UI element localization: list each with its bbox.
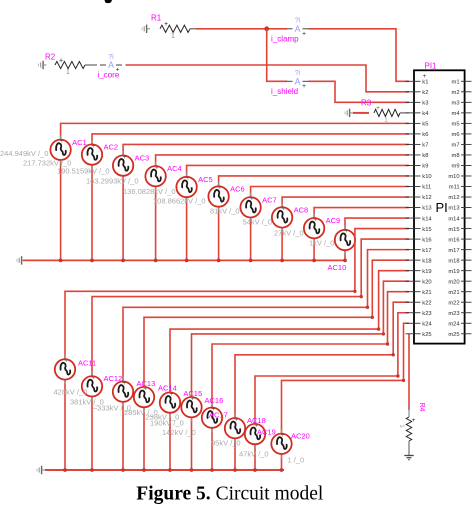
junction AC20 riser corner — [402, 379, 405, 382]
pin k4 — [406, 111, 430, 117]
wire AC14 to pin k18 — [144, 260, 409, 388]
pin m19 — [448, 269, 471, 275]
svg-text:AC15: AC15 — [183, 389, 202, 398]
pin k8 — [406, 153, 429, 159]
svg-text:k4: k4 — [422, 111, 429, 117]
junction AC12 bus — [90, 468, 94, 472]
svg-text:A: A — [108, 60, 114, 70]
pin k23 — [406, 311, 432, 317]
svg-text:m21: m21 — [448, 290, 459, 296]
svg-text:244.949kV /_0: 244.949kV /_0 — [0, 149, 48, 158]
junction AC18 riser corner — [392, 353, 395, 356]
pin m22 — [448, 300, 471, 306]
wire AC19 to ground bus — [254, 443, 256, 470]
wire AC20 to ground bus — [281, 453, 283, 470]
svg-text:m20: m20 — [448, 279, 459, 285]
svg-text:k22: k22 — [422, 300, 431, 306]
junction AC15 riser corner — [377, 327, 380, 330]
resistor R2 lead — [85, 64, 97, 66]
svg-text:k24: k24 — [422, 321, 432, 327]
svg-text:+: + — [122, 380, 126, 387]
AC source AC17 — [202, 403, 222, 432]
pin k6 — [406, 132, 429, 138]
pin k5 — [406, 122, 429, 128]
wire AC13 to ground bus — [122, 401, 124, 470]
wire AC2 to ground bus — [91, 164, 93, 261]
AC source AC12 — [82, 372, 102, 401]
junction AC14 bus — [142, 468, 146, 472]
svg-text:+: + — [155, 164, 159, 171]
svg-text:m13: m13 — [448, 206, 459, 212]
svg-text:+: + — [376, 106, 380, 112]
AC source AC11 — [55, 355, 75, 384]
pin m10 — [448, 174, 471, 180]
svg-text:+: + — [64, 358, 68, 365]
pin k7 — [406, 143, 429, 149]
svg-text:+: + — [164, 21, 168, 28]
svg-text:m18: m18 — [448, 258, 459, 264]
pin m25 — [448, 332, 471, 338]
wire AC10 to pin k14 — [345, 218, 409, 231]
junction AC20 bus — [280, 468, 284, 472]
wire AC5 to pin k9 — [187, 165, 409, 177]
AC source AC20 — [271, 429, 291, 458]
junction AC4 bus — [154, 259, 158, 263]
AC source AC3 — [113, 151, 133, 180]
svg-text:AC17: AC17 — [209, 411, 228, 420]
resistor R4 — [406, 417, 411, 441]
svg-text:163.2993kV /_0: 163.2993kV /_0 — [86, 177, 139, 186]
wire AC7 to ground bus — [250, 217, 252, 261]
ammeter i_core — [98, 54, 123, 80]
svg-text:m22: m22 — [448, 300, 459, 306]
wire AC4 to ground bus — [155, 185, 157, 260]
AC source AC5 — [176, 172, 196, 201]
svg-text:m24: m24 — [448, 321, 460, 327]
svg-text:136.0828kV /_0: 136.0828kV /_0 — [123, 187, 176, 196]
wire junction to i_shield — [267, 29, 287, 82]
svg-text:R2: R2 — [45, 53, 56, 62]
junction AC8 bus — [280, 259, 284, 263]
svg-text:AC19: AC19 — [257, 428, 276, 437]
svg-text:R3: R3 — [361, 99, 372, 108]
pin k21 — [406, 290, 432, 296]
wire AC6 to pin k10 — [219, 176, 409, 187]
wire AC15 to pin k19 — [170, 271, 409, 394]
pin k20 — [406, 279, 432, 285]
pin k18 — [406, 258, 432, 264]
wire AC11 to ground bus — [64, 379, 66, 470]
svg-text:PI: PI — [436, 200, 448, 215]
svg-text:PI1: PI1 — [425, 62, 438, 71]
svg-text:+: + — [59, 57, 63, 64]
resistor R1 — [160, 25, 190, 32]
resistor R3 terminal cap — [345, 109, 353, 117]
svg-text:m1: m1 — [452, 80, 460, 86]
wire R3 cap to resistor — [353, 112, 369, 114]
junction AC16 riser corner — [382, 332, 385, 335]
resistor R1 lead — [190, 28, 197, 30]
svg-text:1 /_0: 1 /_0 — [288, 456, 305, 465]
pin k17 — [406, 248, 432, 254]
svg-text:+: + — [186, 175, 190, 182]
svg-text:+: + — [234, 416, 238, 423]
AC source AC1 — [50, 135, 70, 164]
wire AC13 to pin k17 — [123, 250, 409, 383]
wire AC19 to pin k23 — [255, 313, 409, 425]
svg-text:k17: k17 — [422, 248, 431, 254]
wire AC1 to ground bus — [60, 159, 62, 260]
svg-text:AC10: AC10 — [328, 263, 347, 272]
svg-text:AC5: AC5 — [198, 175, 213, 184]
svg-text:m19: m19 — [448, 269, 459, 275]
wire AC6 to ground bus — [218, 206, 220, 261]
svg-text:m8: m8 — [452, 153, 460, 159]
wire i_clamp to pin k1 — [309, 29, 410, 82]
wire AC12 to ground bus — [91, 396, 93, 471]
svg-text:m23: m23 — [448, 311, 459, 317]
junction AC17 bus — [210, 468, 214, 472]
wire AC20 to pin k24 — [282, 323, 410, 434]
pin m8 — [452, 153, 472, 159]
junction AC12 riser corner — [360, 295, 363, 298]
svg-text:+: + — [218, 185, 222, 192]
svg-text:AC8: AC8 — [294, 205, 309, 214]
pin m24 — [448, 321, 471, 327]
svg-text:+: + — [123, 154, 127, 161]
junction AC6 bus — [217, 259, 221, 263]
pin k16 — [406, 237, 432, 243]
svg-text:k18: k18 — [422, 258, 431, 264]
svg-text:1: 1 — [171, 33, 175, 40]
pin k22 — [406, 300, 432, 306]
pin m20 — [448, 279, 471, 285]
svg-text:m15: m15 — [448, 227, 459, 233]
pin m14 — [448, 216, 471, 222]
wire AC17 to pin k21 — [212, 292, 409, 409]
svg-text:AC11: AC11 — [78, 359, 96, 368]
svg-text:+: + — [250, 196, 254, 203]
junction AC13 riser corner — [366, 306, 369, 309]
svg-text:k5: k5 — [422, 122, 428, 128]
svg-text:+: + — [91, 375, 95, 382]
svg-text:54kV /_0: 54kV /_0 — [243, 218, 273, 227]
svg-text:+: + — [91, 143, 95, 150]
AC source AC4 — [145, 162, 165, 191]
pin k25 — [406, 332, 432, 338]
pin m23 — [448, 311, 471, 317]
svg-text:A: A — [295, 77, 301, 87]
junction AC3 bus — [121, 259, 125, 263]
junction AC15 bus — [168, 468, 172, 472]
resistor R1 terminal cap — [142, 25, 150, 33]
svg-text:R4: R4 — [418, 403, 425, 412]
svg-text:AC18: AC18 — [247, 416, 266, 425]
svg-text:AC4: AC4 — [167, 164, 182, 173]
pin m7 — [452, 143, 472, 149]
svg-text:+: + — [302, 30, 306, 37]
resistor R3 — [374, 109, 400, 116]
AC source AC8 — [272, 203, 292, 232]
svg-text:k23: k23 — [422, 311, 431, 317]
svg-text:AC3: AC3 — [135, 154, 150, 163]
svg-text:i_core: i_core — [98, 71, 120, 80]
svg-text:m11: m11 — [449, 185, 460, 191]
AC source AC18 — [225, 414, 245, 443]
junction AC18 bus — [233, 468, 237, 472]
wire AC9 to ground bus — [313, 237, 315, 260]
pin k24 — [406, 321, 433, 327]
pin k9 — [406, 164, 429, 170]
wire AC16 to ground bus — [191, 416, 193, 470]
svg-text:k12: k12 — [422, 195, 431, 201]
AC source AC9 — [304, 214, 324, 243]
pin k10 — [406, 174, 432, 180]
svg-text:m25: m25 — [448, 332, 459, 338]
svg-text:m10: m10 — [448, 174, 459, 180]
junction clamp/shield — [264, 26, 269, 31]
pin k1 — [406, 80, 429, 86]
svg-text:k3: k3 — [422, 101, 428, 107]
pin k19 — [406, 269, 432, 275]
svg-text:k11: k11 — [422, 185, 431, 191]
junction AC11 riser corner — [353, 290, 356, 293]
svg-text:81kV /_0: 81kV /_0 — [210, 207, 240, 216]
svg-text:95kV /_0: 95kV /_0 — [211, 439, 241, 448]
wire pin k25 to R4 — [408, 334, 410, 410]
wire AC2 to pin k6 — [92, 134, 409, 146]
svg-text:m5: m5 — [452, 122, 460, 128]
svg-text:Figure 5. Circuit model: Figure 5. Circuit model — [136, 484, 324, 505]
svg-text:k25: k25 — [422, 332, 431, 338]
pin k14 — [406, 216, 433, 222]
wire R3 to pin k4 — [400, 112, 409, 114]
pin k2 — [406, 90, 429, 96]
svg-text:m9: m9 — [452, 164, 460, 170]
resistor R2 — [55, 61, 85, 68]
wire AC18 to pin k22 — [235, 302, 409, 419]
svg-text:k7: k7 — [422, 143, 428, 149]
svg-text:+: + — [281, 432, 285, 439]
svg-text:k13: k13 — [422, 206, 431, 212]
svg-text:A: A — [295, 24, 301, 34]
junction AC2 bus — [90, 259, 94, 263]
svg-text:428kV /_0: 428kV /_0 — [54, 388, 88, 397]
svg-text:142kV /_0: 142kV /_0 — [162, 428, 196, 437]
svg-text:k14: k14 — [422, 216, 432, 222]
wire AC4 to pin k8 — [156, 155, 409, 167]
wire AC11 to pin k15 — [65, 229, 409, 361]
svg-text:k16: k16 — [422, 237, 431, 243]
junction AC17 riser corner — [386, 342, 389, 345]
svg-text:AC2: AC2 — [104, 143, 119, 152]
svg-text:m2: m2 — [452, 90, 460, 96]
ground cap row 2 — [37, 466, 45, 474]
wire AC8 to ground bus — [281, 227, 283, 261]
svg-text:AC20: AC20 — [291, 432, 310, 441]
svg-text:1: 1 — [66, 69, 70, 76]
svg-text:190kV /_0: 190kV /_0 — [150, 419, 184, 428]
junction AC9 bus — [312, 259, 316, 263]
junction AC19 bus — [253, 468, 257, 472]
svg-text:+: + — [60, 138, 64, 145]
junction AC13 bus — [121, 468, 125, 472]
PI block body — [414, 70, 465, 343]
pin m5 — [452, 122, 472, 128]
junction AC5 bus — [185, 259, 189, 263]
pin m21 — [448, 290, 471, 296]
svg-text:m6: m6 — [452, 132, 460, 138]
pin m17 — [448, 248, 471, 254]
AC source AC16 — [181, 393, 201, 422]
junction AC19 riser corner — [396, 374, 399, 377]
svg-text:m7: m7 — [452, 143, 460, 149]
wire AC8 to pin k12 — [282, 197, 409, 208]
svg-text:190.5159kV /_0: 190.5159kV /_0 — [57, 167, 110, 176]
wire i_shield to pin k3 — [309, 81, 410, 102]
svg-text:m16: m16 — [448, 237, 459, 243]
junction AC10 bus — [343, 259, 347, 263]
pin k13 — [406, 206, 432, 212]
svg-text:R1: R1 — [151, 14, 162, 23]
svg-text:k19: k19 — [422, 269, 431, 275]
wire AC7 to pin k11 — [251, 187, 409, 199]
wire AC5 to ground bus — [186, 196, 188, 260]
wire i_core to pin k2 — [126, 65, 410, 92]
pin m18 — [448, 258, 471, 264]
svg-text:AC13: AC13 — [137, 379, 156, 388]
wire R1 to junction — [196, 28, 287, 30]
ground bus row 2 — [45, 469, 284, 471]
svg-text:AC16: AC16 — [205, 396, 224, 405]
svg-text:m4: m4 — [452, 111, 461, 117]
wire AC17 to ground bus — [211, 427, 213, 470]
svg-text:k2: k2 — [422, 90, 428, 96]
svg-text:k20: k20 — [422, 279, 431, 285]
svg-text:AC1: AC1 — [72, 138, 87, 147]
pin m12 — [448, 195, 471, 201]
svg-text:+: + — [282, 206, 286, 213]
AC source AC7 — [240, 193, 260, 222]
AC source AC19 — [245, 419, 265, 448]
svg-text:+: + — [302, 83, 306, 90]
pin k12 — [406, 195, 432, 201]
pin k3 — [406, 101, 429, 107]
AC source AC6 — [208, 182, 228, 211]
wire AC15 to ground bus — [169, 412, 171, 470]
svg-text:k21: k21 — [422, 290, 431, 296]
pin m9 — [452, 164, 472, 170]
svg-text:m17: m17 — [448, 248, 459, 254]
resistor R4 lead bottom — [408, 441, 410, 455]
wire AC18 to ground bus — [234, 437, 236, 470]
svg-text:i_shield: i_shield — [271, 87, 298, 96]
svg-text:k1: k1 — [422, 80, 428, 86]
resistor R4 lead top — [408, 408, 410, 417]
ammeter i_clamp — [271, 18, 309, 44]
pin k11 — [406, 185, 432, 191]
junction AC1 bus — [59, 259, 63, 263]
AC source AC10 — [335, 225, 355, 254]
svg-text:i_clamp: i_clamp — [271, 35, 299, 44]
wire AC14 to ground bus — [143, 406, 145, 470]
pin m2 — [452, 90, 472, 96]
ground bus row 1 — [23, 259, 344, 261]
pin m4 — [452, 111, 472, 117]
svg-text:AC14: AC14 — [158, 384, 177, 393]
svg-text:k8: k8 — [422, 153, 428, 159]
svg-text:27kV /_0: 27kV /_0 — [274, 229, 304, 238]
svg-text:k9: k9 — [422, 164, 428, 170]
pin m15 — [448, 227, 471, 233]
svg-text:AC12: AC12 — [104, 374, 123, 383]
svg-text:+: + — [412, 417, 416, 424]
AC source AC14 — [134, 382, 154, 411]
svg-text:AC7: AC7 — [262, 195, 277, 204]
wire AC3 to ground bus — [122, 175, 124, 261]
junction AC7 bus — [249, 259, 253, 263]
svg-text:AC9: AC9 — [326, 216, 341, 225]
pin m6 — [452, 132, 472, 138]
cropped text fragment from line above — [105, 0, 113, 3]
svg-text:k15: k15 — [422, 227, 431, 233]
svg-text:m3: m3 — [452, 101, 460, 107]
ground R4 — [404, 456, 413, 460]
wire AC10 to ground bus — [344, 249, 346, 260]
pin m16 — [448, 237, 471, 243]
wire AC16 to pin k20 — [192, 281, 410, 398]
pin m1 — [452, 80, 472, 86]
svg-text:47kV /_0: 47kV /_0 — [239, 450, 269, 459]
junction AC16 bus — [190, 468, 194, 472]
svg-text:+: + — [314, 216, 318, 223]
svg-text:AC6: AC6 — [230, 185, 245, 194]
junction AC11 bus — [63, 468, 67, 472]
wire AC12 to pin k16 — [92, 239, 409, 377]
wire AC3 to pin k7 — [123, 144, 409, 156]
AC source AC15 — [160, 388, 180, 417]
svg-text:+: + — [344, 228, 348, 235]
resistor R2 terminal cap — [39, 61, 47, 69]
svg-text:k6: k6 — [422, 132, 428, 138]
svg-text:k10: k10 — [422, 174, 431, 180]
svg-text:m14: m14 — [448, 216, 460, 222]
svg-text:1kV /_0: 1kV /_0 — [309, 239, 334, 248]
pin m11 — [449, 185, 472, 191]
wire AC1 to pin k5 — [61, 123, 409, 140]
wire AC9 to pin k13 — [314, 208, 409, 219]
svg-text:m12: m12 — [448, 195, 459, 201]
ammeter i_shield — [271, 70, 309, 96]
svg-text:1: 1 — [398, 424, 405, 428]
pin k15 — [406, 227, 432, 233]
pin m13 — [448, 206, 471, 212]
AC source AC13 — [113, 377, 133, 406]
ground cap row 1 — [17, 256, 25, 264]
svg-text:108.8662kV /_0: 108.8662kV /_0 — [153, 197, 206, 206]
pin m3 — [452, 101, 472, 107]
junction AC14 riser corner — [371, 316, 374, 319]
AC source AC2 — [82, 140, 102, 169]
